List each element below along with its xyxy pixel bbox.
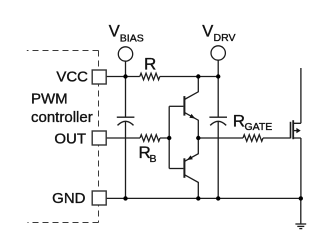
svg-text:OUT: OUT — [54, 131, 86, 148]
supply terminal V_BIAS — [118, 47, 132, 61]
wire OUT row — [106, 137, 169, 139]
resistor R — [140, 73, 160, 80]
pin VCC — [92, 70, 106, 84]
node GND rail / PNP collector junction — [196, 196, 200, 200]
wire VBIAS cap to GND rail — [125, 122, 127, 199]
svg-text:B: B — [150, 153, 157, 165]
resistor RGATE — [243, 135, 263, 142]
node GND rail / C1 junction — [123, 196, 127, 200]
capacitor C1 (VBIAS bypass) — [117, 117, 135, 125]
resistor RB — [140, 135, 160, 142]
node GND rail / MOSFET source junction — [299, 196, 303, 200]
wire VDRV drop — [217, 60, 219, 117]
svg-text:GND: GND — [52, 190, 86, 207]
svg-text:DRV: DRV — [214, 32, 236, 44]
pin GND — [92, 191, 106, 205]
wire driver output to gate — [198, 137, 290, 139]
wire VDRV cap to GND rail — [217, 122, 219, 199]
svg-text:PWM: PWM — [31, 91, 68, 108]
node driver output junction — [196, 136, 200, 140]
wire VBIAS drop — [125, 61, 127, 117]
ground — [295, 198, 306, 228]
svg-text:V: V — [109, 23, 120, 41]
capacitor C2 (VDRV bypass) — [209, 117, 227, 125]
svg-text:V: V — [202, 23, 213, 41]
supply terminal V_DRV — [211, 46, 225, 60]
transistor Q2 PNP (lower totem pole) — [169, 138, 198, 198]
node NPN collector junction — [196, 74, 200, 78]
node VDRV rail junction — [216, 74, 220, 78]
node VCC rail / VBIAS junction — [123, 74, 127, 78]
svg-text:VCC: VCC — [56, 69, 88, 86]
node GND rail / C2 junction — [216, 196, 220, 200]
svg-text:R: R — [144, 55, 156, 74]
svg-text:controller: controller — [31, 109, 93, 126]
svg-text:BIAS: BIAS — [120, 33, 144, 45]
transistor Q1 NPN (upper totem pole) — [169, 77, 198, 139]
node RB / base junction — [167, 136, 171, 140]
wire GND rail — [106, 197, 301, 199]
wire top rail VCC to VDRV — [106, 76, 218, 78]
wire totem pole base line — [168, 106, 170, 168]
svg-text:R: R — [233, 112, 245, 131]
svg-text:GATE: GATE — [245, 121, 273, 133]
PWM controller dashed box — [27, 51, 99, 223]
pin OUT — [92, 131, 106, 145]
transistor M1 power MOSFET — [291, 68, 301, 198]
